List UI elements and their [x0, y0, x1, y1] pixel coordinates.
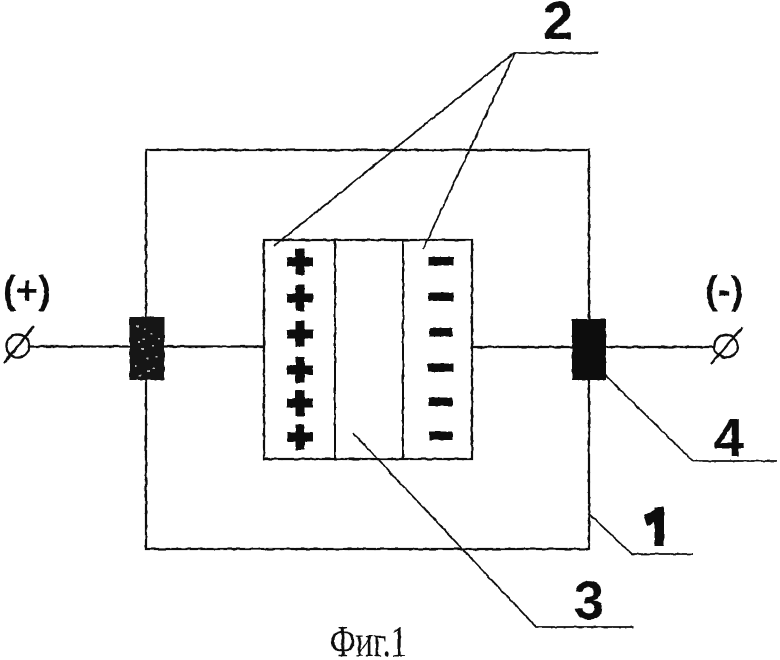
svg-text:Фиг.1: Фиг.1: [330, 617, 407, 660]
svg-text:2: 2: [543, 0, 573, 51]
svg-text:3: 3: [574, 571, 604, 631]
svg-text:4: 4: [714, 408, 744, 468]
svg-text:(-): (-): [705, 270, 743, 313]
svg-text:(+): (+): [3, 270, 51, 313]
